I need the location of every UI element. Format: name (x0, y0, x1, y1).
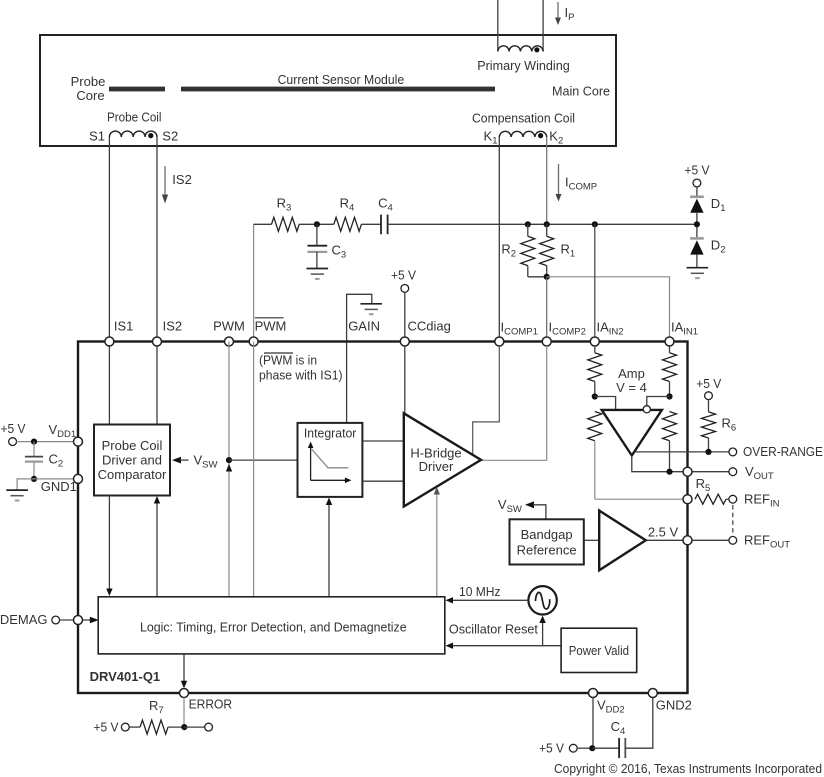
primary wire right (542, 0, 544, 52)
wire C4b to GND2 (625, 697, 653, 748)
svg-text:Reference: Reference (517, 543, 577, 558)
resistor R5 (695, 494, 729, 504)
svg-text:10 MHz: 10 MHz (459, 584, 501, 599)
capacitor C2 (25, 442, 43, 479)
arrow VSW into driver (172, 457, 189, 464)
wire oscillator reset (446, 643, 562, 649)
svg-text:Oscillator Reset: Oscillator Reset (449, 622, 538, 637)
resistor IAIN1 lower (663, 412, 677, 472)
wire feedback to REFIN (595, 498, 683, 500)
capacitor C4 (381, 215, 388, 235)
dashed ref wire (732, 505, 734, 535)
wire ERROR out (184, 726, 204, 728)
pin GND2 (648, 689, 657, 698)
pin VDD2 (589, 689, 598, 698)
svg-text:IS2: IS2 (163, 319, 183, 334)
svg-text:Bandgap: Bandgap (521, 527, 573, 542)
wire C2 to ground (17, 479, 34, 490)
terminal DEMAG (52, 616, 60, 624)
wire CCdiag (404, 292, 406, 341)
wire integrator out bottom (362, 480, 403, 482)
integrator axes (308, 442, 352, 484)
node rail IAIN2 (592, 221, 598, 227)
ground diodes (687, 268, 709, 278)
arrow logic to integrator (326, 498, 332, 597)
current arrow IS2 (162, 166, 168, 204)
svg-text:Primary Winding: Primary Winding (477, 58, 570, 73)
pin REFIN (683, 495, 692, 504)
wire DEMAG (60, 619, 90, 621)
primary wire left (497, 0, 499, 52)
wire node to C4b (592, 747, 619, 749)
svg-text:IP: IP (565, 5, 575, 23)
svg-text:VDD2: VDD2 (597, 698, 625, 716)
pin PWMbar (249, 337, 258, 346)
svg-text:OVER-RANGE: OVER-RANGE (743, 444, 823, 459)
terminal ERROR (205, 723, 213, 731)
logic block (98, 597, 445, 654)
wire VDD2 drop (592, 697, 594, 748)
resistor R6 (702, 400, 716, 452)
svg-text:K2: K2 (549, 129, 563, 147)
ground GND1 (6, 490, 28, 500)
inverting input bubble (643, 406, 650, 413)
wire K2 to rail (546, 137, 548, 224)
pin IS1 (105, 337, 114, 346)
wire VDD1 (17, 441, 79, 443)
wire D2 to ground (696, 255, 698, 268)
compensation coil (499, 131, 546, 138)
svg-text:ICOMP1: ICOMP1 (501, 320, 538, 338)
primary winding coil (498, 46, 543, 53)
svg-text:VDD1: VDD1 (49, 422, 77, 440)
wire to D1 (696, 187, 698, 198)
probe coil driver block (94, 425, 170, 496)
terminal +5V VDD2 (569, 744, 577, 752)
svg-text:DRV401-Q1: DRV401-Q1 (90, 669, 161, 684)
svg-text:C4: C4 (611, 719, 626, 737)
pin REFOUT (683, 536, 692, 545)
wire D1 to D2 (696, 213, 698, 240)
terminal OVER-RANGE (729, 448, 737, 456)
buffer amp U3 (599, 511, 646, 571)
svg-text:IAIN1: IAIN1 (671, 320, 698, 338)
label Bandgap Reference (517, 527, 577, 558)
svg-text:Comparator: Comparator (98, 467, 167, 482)
pin ICOMP2 (542, 337, 551, 346)
wire compensation rail (388, 223, 697, 225)
svg-text:REFOUT: REFOUT (744, 533, 790, 551)
node R6 bottom (705, 449, 711, 455)
label H-Bridge Driver (410, 446, 461, 474)
H-bridge driver U2 (404, 413, 481, 506)
svg-text:+5 V: +5 V (685, 163, 710, 178)
svg-text:R6: R6 (722, 416, 737, 434)
svg-text:ICOMP2: ICOMP2 (549, 320, 586, 338)
wire S1 to IS1 (108, 137, 110, 425)
bandgap reference block (510, 519, 584, 564)
node C2 top (31, 439, 37, 445)
node amp in left (592, 393, 598, 399)
pin ICOMP1 (495, 337, 504, 346)
svg-text:2.5 V: 2.5 V (648, 525, 679, 540)
resistor R3 (272, 217, 300, 231)
label Amp V=4 (616, 366, 647, 395)
svg-text:PWM: PWM (255, 319, 287, 334)
wire riser to R3 (254, 223, 272, 225)
wire R4 to C4 (361, 223, 381, 225)
terminal +5V CCdiag (401, 285, 409, 293)
terminal +5V R6 (705, 392, 713, 400)
pin GND1 (74, 474, 83, 483)
svg-text:VOUT: VOUT (745, 464, 774, 482)
svg-text:PWM: PWM (213, 319, 245, 334)
node rail R1 (544, 221, 550, 227)
power valid block (561, 628, 637, 672)
svg-text:Probe: Probe (71, 74, 106, 89)
node R1 bottom (544, 274, 550, 280)
diode D2 (690, 238, 704, 254)
svg-text:+5 V: +5 V (1, 421, 26, 436)
svg-text:Amp: Amp (618, 366, 645, 381)
wire to R7 (129, 726, 140, 728)
svg-text:Main Core: Main Core (552, 84, 610, 99)
svg-text:Driver and: Driver and (102, 453, 162, 468)
node rail R2 (525, 221, 531, 227)
svg-text:Power Valid: Power Valid (569, 643, 629, 658)
terminal REFIN (729, 495, 737, 503)
oscillator 10MHz (528, 586, 556, 614)
wire to amp plus (595, 397, 616, 410)
terminal REFOUT (729, 536, 737, 544)
svg-text:IAIN2: IAIN2 (597, 320, 624, 338)
wire GAIN to integrator (346, 342, 348, 423)
pin IAIN1 (665, 337, 674, 346)
svg-text:Compensation Coil: Compensation Coil (472, 111, 575, 126)
svg-text:R1: R1 (561, 242, 576, 260)
resistor R1 (540, 224, 554, 276)
resistor IAIN2 upper (588, 346, 602, 397)
capacitor C4 bypass (619, 738, 625, 758)
wire rail to IAIN2 (594, 224, 596, 341)
svg-text:CCdiag: CCdiag (408, 319, 451, 334)
wire R1 to ICOMP2 (546, 277, 548, 342)
probe core bar (109, 87, 165, 92)
wire REFOUT (646, 539, 729, 541)
wire feedback to IAIN1 (547, 277, 670, 342)
terminal +5V diodes (693, 179, 701, 187)
wire VSW to integrator (229, 459, 298, 461)
wire PWMbar to logic (253, 342, 255, 597)
wire ICOMP1 internal (473, 346, 500, 455)
svg-text:Logic: Timing, Error Detection: Logic: Timing, Error Detection, and Dema… (140, 620, 407, 635)
op-amp U1 (602, 410, 662, 456)
wire 10MHz (446, 597, 529, 603)
current arrow IP (555, 2, 561, 25)
main core bar (181, 87, 495, 92)
label Probe Core (71, 74, 106, 103)
wire R7 to node (168, 726, 184, 728)
node amp in right (666, 393, 672, 399)
wire bandgap to buffer (584, 539, 599, 541)
svg-text:Current Sensor Module: Current Sensor Module (278, 72, 405, 87)
pin IAIN2 (590, 337, 599, 346)
svg-text:R2: R2 (501, 242, 516, 260)
svg-text:DEMAG: DEMAG (0, 612, 48, 627)
arrow reset to oscillator (539, 616, 545, 646)
integrator block (298, 423, 363, 497)
svg-text:S2: S2 (162, 129, 178, 144)
svg-text:K1: K1 (484, 129, 498, 147)
wire K1 to ICOMP1 (498, 137, 500, 342)
diode D1 (690, 197, 704, 213)
svg-text:+5 V: +5 V (94, 720, 119, 735)
arrow logic to ERROR (181, 654, 187, 688)
svg-text:Driver: Driver (419, 459, 454, 474)
svg-text:IS1: IS1 (114, 319, 134, 334)
pin DEMAG (74, 616, 83, 625)
svg-text:GND2: GND2 (656, 698, 692, 713)
svg-text:GND1: GND1 (41, 479, 77, 494)
terminal VOUT (729, 468, 737, 476)
resistor R4 (334, 217, 362, 231)
resistor IAIN1 upper (663, 346, 677, 397)
pin PWM (225, 337, 234, 346)
svg-text:+5 V: +5 V (539, 741, 564, 756)
integrator curve (312, 449, 349, 468)
capacitor C3 (308, 246, 328, 269)
wire ERROR drop (183, 697, 185, 727)
wire GND1 (34, 478, 78, 480)
label probe coil driver (98, 438, 167, 482)
node VSW (226, 457, 232, 463)
pin CCdiag (400, 337, 409, 346)
node VOUT feedback (666, 469, 672, 475)
svg-text:R4: R4 (340, 196, 355, 214)
pin VDD1 (74, 437, 83, 446)
svg-text:C3: C3 (332, 243, 347, 261)
resistor R7 (140, 720, 168, 734)
wire node to C3 (316, 224, 318, 245)
svg-text:Copyright © 2016, Texas Instru: Copyright © 2016, Texas Instruments Inco… (554, 762, 822, 776)
svg-text:ICOMP: ICOMP (565, 175, 597, 193)
node diode junction (694, 221, 700, 227)
terminal +5V VDD1 (9, 438, 17, 446)
wire integrator out top (362, 440, 403, 442)
ground GAIN (360, 304, 382, 314)
node C3 junction (314, 221, 320, 227)
arrow logic to driver (154, 496, 160, 597)
current arrow ICOMP (556, 164, 562, 202)
svg-text:+5 V: +5 V (391, 268, 416, 283)
svg-text:REFIN: REFIN (744, 492, 780, 510)
svg-text:C2: C2 (49, 452, 64, 470)
svg-text:VSW: VSW (194, 453, 218, 471)
svg-text:C4: C4 (378, 196, 393, 214)
wire S2 to IS2 (156, 137, 158, 425)
arrow DEMAG into logic (90, 617, 99, 623)
svg-text:Probe Coil: Probe Coil (107, 110, 162, 125)
svg-text:V = 4: V = 4 (616, 380, 647, 395)
svg-text:phase with IS1): phase with IS1) (259, 368, 343, 383)
IC DRV401-Q1 box (78, 342, 688, 694)
wire PWM riser (228, 342, 230, 597)
arrow driver to logic (106, 496, 112, 597)
svg-text:+5 V: +5 V (696, 376, 721, 391)
pin ERROR (180, 689, 189, 698)
node C2 bottom (31, 476, 37, 482)
resistor R2 (521, 224, 547, 276)
wire R3 to node (299, 223, 334, 225)
resistor IAIN2 lower (588, 412, 602, 500)
wire ICOMP2 internal (481, 346, 547, 461)
svg-text:R5: R5 (696, 476, 711, 494)
note PWM in phase (259, 353, 343, 383)
wire amp out (632, 456, 729, 472)
svg-text:Probe Coil: Probe Coil (102, 438, 163, 453)
svg-text:(PWM is in: (PWM is in (259, 353, 317, 368)
pin IS2 (153, 337, 162, 346)
arrow VSW bandgap (525, 501, 546, 519)
svg-text:IS2: IS2 (172, 172, 192, 187)
svg-text:D2: D2 (711, 238, 726, 256)
current sensor module box (40, 35, 616, 146)
node ERROR (181, 724, 187, 730)
ground C3 (307, 269, 329, 279)
svg-text:VSW: VSW (498, 497, 522, 515)
pin VOUT (683, 467, 692, 476)
wire OVER-RANGE (634, 451, 729, 453)
svg-text:GAIN: GAIN (348, 319, 380, 334)
svg-text:R7: R7 (149, 698, 164, 716)
svg-text:Core: Core (76, 88, 104, 103)
svg-text:S1: S1 (89, 129, 105, 144)
svg-text:ERROR: ERROR (189, 697, 233, 712)
svg-text:Integrator: Integrator (304, 426, 357, 441)
wire to VDD2 node (577, 747, 592, 749)
wire CCdiag inside (404, 342, 406, 414)
terminal +5V R7 (121, 723, 129, 731)
node VDD2 (589, 745, 595, 751)
svg-text:D1: D1 (711, 196, 726, 214)
arrow VSW up (226, 464, 232, 472)
probe coil L1 (109, 131, 157, 138)
wire PWMbar riser (253, 224, 255, 341)
label PWMbar (255, 318, 287, 334)
wire to amp minus (647, 397, 670, 406)
wire GAIN (347, 294, 372, 341)
arrow logic to H-bridge (434, 487, 440, 597)
svg-text:R3: R3 (277, 196, 292, 214)
